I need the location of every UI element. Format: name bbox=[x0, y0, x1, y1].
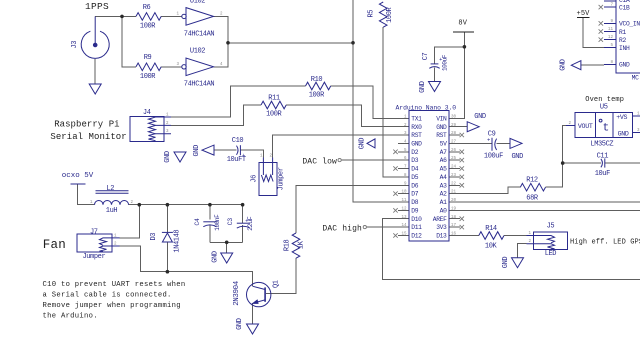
svg-text:GND: GND bbox=[474, 113, 486, 121]
svg-text:1N4148: 1N4148 bbox=[174, 230, 182, 253]
svg-text:Jumper: Jumper bbox=[278, 167, 286, 190]
svg-text:C7: C7 bbox=[422, 53, 430, 61]
svg-text:10K: 10K bbox=[485, 243, 498, 251]
svg-text:74HC14AN: 74HC14AN bbox=[184, 30, 215, 38]
svg-text:74HC14AN: 74HC14AN bbox=[184, 81, 215, 89]
svg-text:R6: R6 bbox=[143, 4, 151, 12]
svg-text:+: + bbox=[487, 136, 490, 143]
svg-text:U5: U5 bbox=[600, 103, 608, 111]
svg-text:J4: J4 bbox=[143, 109, 151, 117]
svg-text:1PPS: 1PPS bbox=[85, 1, 109, 12]
svg-text:24: 24 bbox=[451, 166, 457, 170]
svg-text:J5: J5 bbox=[547, 223, 555, 231]
svg-text:68R: 68R bbox=[526, 194, 539, 202]
svg-text:INH: INH bbox=[619, 45, 630, 52]
svg-text:28: 28 bbox=[451, 132, 457, 136]
svg-text:D3: D3 bbox=[411, 157, 418, 164]
svg-text:1K: 1K bbox=[297, 240, 305, 249]
svg-text:Q1: Q1 bbox=[273, 280, 281, 288]
svg-text:C10: C10 bbox=[232, 137, 244, 145]
svg-text:19: 19 bbox=[451, 208, 457, 212]
svg-text:J6: J6 bbox=[250, 175, 258, 183]
svg-text:D2: D2 bbox=[411, 149, 418, 156]
svg-text:RST: RST bbox=[411, 132, 422, 139]
svg-text:100nF: 100nF bbox=[214, 214, 221, 231]
svg-text:R12: R12 bbox=[526, 177, 538, 185]
svg-text:a Serial cable is connected.: a Serial cable is connected. bbox=[43, 291, 172, 299]
svg-text:100R: 100R bbox=[266, 111, 282, 119]
svg-text:A6: A6 bbox=[440, 157, 447, 164]
svg-text:R18: R18 bbox=[284, 240, 292, 252]
svg-text:C1B: C1B bbox=[619, 4, 630, 11]
svg-text:VIN: VIN bbox=[436, 115, 447, 122]
svg-text:20: 20 bbox=[451, 199, 457, 203]
svg-text:Serial Monitor: Serial Monitor bbox=[50, 132, 126, 142]
svg-text:GND: GND bbox=[436, 124, 447, 131]
svg-text:TX1: TX1 bbox=[411, 115, 422, 122]
svg-text:23: 23 bbox=[451, 174, 457, 178]
svg-text:+: + bbox=[439, 56, 442, 63]
svg-text:LM35CZ: LM35CZ bbox=[590, 141, 613, 149]
svg-text:J7: J7 bbox=[90, 228, 98, 236]
svg-text:A2: A2 bbox=[440, 191, 447, 198]
svg-text:+VS: +VS bbox=[616, 114, 627, 121]
svg-text:27: 27 bbox=[451, 141, 457, 145]
svg-text:A0: A0 bbox=[440, 208, 447, 215]
svg-text:16: 16 bbox=[451, 233, 457, 237]
svg-text:D3: D3 bbox=[150, 233, 158, 241]
svg-text:C1A: C1A bbox=[619, 0, 630, 4]
svg-text:15: 15 bbox=[401, 233, 407, 237]
svg-text:11: 11 bbox=[608, 28, 614, 32]
svg-text:22: 22 bbox=[451, 182, 457, 186]
svg-text:R10: R10 bbox=[311, 76, 323, 84]
svg-text:GND: GND bbox=[618, 130, 629, 137]
svg-text:GND: GND bbox=[358, 138, 366, 150]
svg-text:+5V: +5V bbox=[577, 10, 591, 18]
svg-text:17: 17 bbox=[451, 224, 457, 228]
svg-text:GND: GND bbox=[619, 62, 630, 69]
svg-text:C11: C11 bbox=[597, 152, 609, 160]
svg-text:GND: GND bbox=[212, 251, 220, 263]
svg-text:R5: R5 bbox=[368, 10, 376, 18]
svg-text:D12: D12 bbox=[411, 233, 422, 240]
svg-text:LED: LED bbox=[545, 250, 557, 258]
svg-text:Arduino Nano 3.0: Arduino Nano 3.0 bbox=[396, 104, 457, 111]
svg-text:12: 12 bbox=[608, 36, 614, 40]
svg-text:DAC high: DAC high bbox=[322, 224, 362, 233]
svg-text:3V3: 3V3 bbox=[436, 224, 447, 231]
svg-text:100R: 100R bbox=[140, 23, 156, 31]
svg-text:18: 18 bbox=[451, 216, 457, 220]
svg-text:ocxo 5V: ocxo 5V bbox=[62, 172, 94, 180]
svg-text:D5: D5 bbox=[411, 174, 418, 181]
svg-text:L2: L2 bbox=[106, 185, 114, 193]
svg-text:1uH: 1uH bbox=[106, 207, 118, 215]
svg-text:Jumper: Jumper bbox=[82, 253, 105, 261]
svg-text:C3: C3 bbox=[227, 218, 234, 226]
svg-text:C10 to prevent UART resets whe: C10 to prevent UART resets when bbox=[43, 281, 186, 289]
svg-text:D13: D13 bbox=[436, 233, 447, 240]
svg-text:30: 30 bbox=[451, 115, 457, 119]
svg-text:t: t bbox=[603, 123, 610, 135]
svg-text:MC: MC bbox=[632, 75, 639, 82]
svg-text:Raspberry Pi: Raspberry Pi bbox=[54, 119, 119, 129]
svg-text:29: 29 bbox=[451, 124, 457, 128]
svg-text:VCO_IN: VCO_IN bbox=[619, 21, 640, 28]
svg-text:26: 26 bbox=[451, 149, 457, 153]
svg-text:14: 14 bbox=[401, 224, 407, 228]
svg-text:C4: C4 bbox=[194, 218, 201, 226]
svg-text:2N3904: 2N3904 bbox=[233, 280, 241, 306]
svg-text:VOUT: VOUT bbox=[578, 123, 593, 130]
svg-text:GND: GND bbox=[511, 153, 523, 161]
svg-text:100R: 100R bbox=[140, 73, 156, 81]
svg-text:11: 11 bbox=[401, 199, 407, 203]
svg-text:A4: A4 bbox=[440, 174, 447, 181]
svg-text:D8: D8 bbox=[411, 199, 418, 206]
svg-text:GND: GND bbox=[419, 81, 427, 93]
svg-text:R11: R11 bbox=[268, 94, 280, 102]
svg-text:12: 12 bbox=[401, 208, 407, 212]
svg-text:D9: D9 bbox=[411, 208, 418, 215]
svg-text:AREF: AREF bbox=[433, 216, 447, 223]
svg-text:R14: R14 bbox=[485, 225, 497, 233]
svg-text:A3: A3 bbox=[440, 182, 447, 189]
svg-text:100R: 100R bbox=[309, 92, 325, 100]
svg-text:D4: D4 bbox=[411, 166, 418, 173]
svg-text:the Arduino.: the Arduino. bbox=[43, 312, 98, 320]
svg-text:R2: R2 bbox=[619, 37, 626, 44]
svg-text:100uF: 100uF bbox=[484, 152, 503, 160]
svg-text:GND: GND bbox=[560, 59, 568, 71]
svg-text:21: 21 bbox=[451, 191, 457, 195]
svg-text:U102: U102 bbox=[190, 0, 205, 6]
svg-text:GND: GND bbox=[411, 141, 422, 148]
svg-text:13: 13 bbox=[401, 216, 407, 220]
svg-text:DAC low: DAC low bbox=[302, 157, 337, 166]
svg-text:GND: GND bbox=[236, 318, 244, 330]
svg-text:10uF: 10uF bbox=[595, 170, 610, 178]
svg-text:GND: GND bbox=[193, 145, 201, 157]
svg-text:100R: 100R bbox=[386, 6, 394, 22]
svg-text:GND: GND bbox=[502, 257, 510, 269]
svg-text:D10: D10 bbox=[411, 216, 422, 223]
svg-text:High eff. LED GPS: High eff. LED GPS bbox=[570, 239, 640, 247]
svg-text:+: + bbox=[242, 152, 245, 159]
svg-text:5V: 5V bbox=[440, 141, 447, 148]
svg-text:D11: D11 bbox=[411, 224, 422, 231]
svg-text:8V: 8V bbox=[458, 19, 467, 27]
svg-text:Fan: Fan bbox=[43, 238, 66, 252]
svg-text:D7: D7 bbox=[411, 191, 418, 198]
svg-text:+: + bbox=[245, 217, 248, 224]
svg-text:RST: RST bbox=[436, 132, 447, 139]
svg-text:GND: GND bbox=[164, 151, 172, 163]
svg-text:A1: A1 bbox=[440, 199, 447, 206]
svg-text:10: 10 bbox=[401, 191, 407, 195]
svg-text:U102: U102 bbox=[190, 48, 205, 56]
svg-text:R1: R1 bbox=[619, 29, 626, 36]
svg-text:A5: A5 bbox=[440, 166, 447, 173]
svg-text:A7: A7 bbox=[440, 149, 447, 156]
svg-text:D6: D6 bbox=[411, 182, 418, 189]
svg-text:J3: J3 bbox=[71, 41, 79, 49]
svg-text:25: 25 bbox=[451, 157, 457, 161]
svg-text:Remove jumper when programming: Remove jumper when programming bbox=[43, 302, 181, 310]
svg-text:R9: R9 bbox=[144, 54, 152, 62]
svg-text:RX0: RX0 bbox=[411, 124, 422, 131]
